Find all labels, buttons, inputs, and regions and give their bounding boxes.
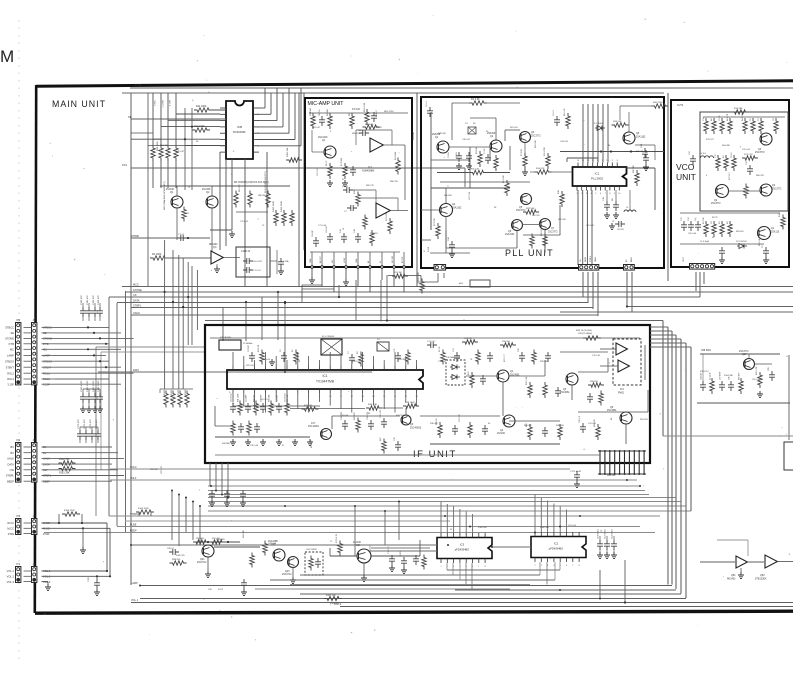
capacitor cluster right of Q24	[388, 546, 426, 574]
svg-text:C95 0.04: C95 0.04	[752, 379, 761, 381]
capacitor C38 0.033	[380, 409, 387, 428]
resistor R55b v	[263, 541, 267, 556]
wires IF bottom stubs to band	[210, 463, 228, 499]
svg-text:R50 680: R50 680	[196, 538, 205, 540]
svg-text:J4: J4	[33, 514, 37, 518]
label MIC-AMP UNIT	[308, 101, 345, 107]
label R81 4700	[384, 111, 394, 113]
svg-text:C172 0.001: C172 0.001	[570, 471, 582, 473]
svg-text:µPD4094BG: µPD4094BG	[549, 547, 564, 551]
wire IC2-IC3 link	[492, 546, 531, 548]
wire vertical drop 4 across bus	[187, 262, 189, 345]
transistor Q2 2SU106	[206, 196, 218, 208]
svg-text:LAMP: LAMP	[7, 354, 14, 358]
svg-text:2SC3771: 2SC3771	[772, 189, 782, 191]
label UNLK	[133, 311, 140, 315]
op-amp IC1a NJM4558M	[370, 138, 383, 152]
svg-text:UNLK: UNLK	[133, 311, 140, 315]
value annotation texture (labels)	[150, 127, 764, 557]
label Q23	[282, 570, 292, 576]
capacitor C25 if	[545, 352, 551, 362]
wire vertical bus D	[95, 347, 97, 516]
wire vertical drop 2 across bus	[178, 255, 180, 389]
wire bottom rail 2	[455, 589, 676, 591]
IC3 top pins	[441, 533, 485, 538]
svg-text:C71 0.04: C71 0.04	[318, 225, 327, 227]
capacitor C36 if2	[587, 393, 593, 403]
title letter M (cropped page title)	[0, 47, 14, 66]
capacitor C5 vco	[719, 247, 725, 263]
wires IC1TX top risers	[233, 352, 417, 366]
svg-text:R2 47: R2 47	[326, 160, 328, 166]
capacitor C13 0.0056	[340, 228, 347, 243]
wire bus band 4	[208, 494, 649, 496]
vco resistor row 1b	[742, 113, 778, 134]
svg-text:J1: J1	[33, 562, 37, 566]
label X1	[465, 123, 476, 125]
capacitor C185 0.002	[88, 575, 100, 595]
transistor Q4 2SC3771 vco	[760, 184, 772, 196]
label STBNF	[131, 235, 140, 238]
wire M.CC corner	[109, 528, 111, 576]
wire micamp right vertical	[416, 93, 418, 287]
capacitor C3 pll	[456, 152, 472, 170]
svg-text:C47 0.04: C47 0.04	[469, 191, 471, 200]
svg-text:2SC3772: 2SC3772	[739, 351, 749, 353]
label DATA	[133, 299, 140, 303]
wires IC1TX bottom stubs	[233, 394, 417, 413]
svg-text:STBCC: STBCC	[130, 513, 139, 516]
wire bottom rail VOL2	[340, 606, 793, 608]
svg-text:C67 0.01: C67 0.01	[317, 167, 319, 176]
svg-text:ROL3: ROL3	[7, 377, 14, 381]
svg-text:TX1044TMB: TX1044TMB	[316, 380, 334, 384]
wire bus-to-IF v2	[245, 301, 247, 341]
resistor R55 v	[526, 422, 532, 440]
capacitor C3 40P	[762, 245, 769, 264]
resistor R11 270 h	[462, 338, 478, 344]
resistor R5 v pll	[494, 155, 498, 171]
IC1TX top pins	[233, 366, 417, 371]
svg-text:J5: J5	[33, 318, 37, 322]
resistor R16 68K vco	[732, 108, 749, 114]
amp IC4b	[618, 360, 629, 372]
svg-text:R84 98K: R84 98K	[160, 145, 168, 147]
svg-text:R80 70K: R80 70K	[390, 181, 398, 183]
svg-text:R11 10K: R11 10K	[413, 131, 415, 140]
svg-text:2SC4061B: 2SC4061B	[410, 428, 422, 430]
IC1TX bottom pins	[233, 389, 417, 394]
svg-text:Q17: Q17	[742, 353, 747, 356]
svg-text:STBPL: STBPL	[133, 304, 142, 308]
capacitor C1 pll	[448, 152, 462, 170]
svg-text:9: 9	[612, 160, 613, 162]
svg-text:STBPL: STBPL	[6, 474, 15, 478]
page fold dashed line	[18, 20, 20, 660]
wire R14	[530, 171, 572, 173]
svg-text:6: 6	[566, 565, 567, 567]
resistor R22 100K below micamp	[418, 271, 424, 293]
transistor Q4 2SJ106 if	[503, 415, 515, 427]
wire bus band 8	[208, 510, 691, 512]
label Q4 if	[497, 429, 506, 435]
svg-text:C63 0.07: C63 0.07	[312, 127, 321, 129]
resistor R20 220K	[652, 102, 669, 108]
wire Q2 source	[211, 208, 213, 251]
svg-text:C38 0.1: C38 0.1	[167, 548, 175, 550]
junctions J5 wires	[87, 326, 107, 368]
svg-text:3: 3	[586, 193, 587, 195]
wire if inner v1	[331, 416, 333, 429]
wire bottom rail VOL1	[131, 602, 793, 604]
svg-text:R11 100K: R11 100K	[196, 105, 207, 108]
label TX1044TMB	[316, 380, 334, 384]
svg-text:C12A: C12A	[283, 260, 289, 263]
capacitor C7b 0.01	[243, 267, 261, 273]
svg-text:R7 270K: R7 270K	[434, 218, 436, 226]
label IF UNIT	[413, 449, 457, 460]
svg-text:R72 14K: R72 14K	[759, 238, 761, 246]
connector J2 (on border, 7-pin)	[32, 438, 37, 482]
svg-text:C55 0.01: C55 0.01	[742, 149, 751, 151]
svg-text:R32 94K: R32 94K	[287, 394, 289, 402]
resistor R53 v	[468, 422, 472, 438]
capacitor C39 b	[241, 579, 247, 595]
wire pll mesh 1	[431, 159, 470, 161]
svg-text:DATA: DATA	[133, 299, 140, 303]
wire bus DATA	[117, 302, 588, 304]
crystal X1 box	[468, 127, 476, 134]
label R68 800	[607, 475, 616, 477]
label STBPL	[133, 304, 142, 308]
svg-text:C8 22P: C8 22P	[312, 229, 314, 237]
wire rm link	[749, 354, 772, 364]
svg-text:MIC-AMP UNIT: MIC-AMP UNIT	[308, 101, 345, 107]
resistor R16 560 h	[500, 341, 516, 347]
svg-text:C1 18: C1 18	[448, 152, 450, 158]
capacitor C13 if2	[453, 347, 460, 362]
transistor Q24 2SJ106	[357, 549, 371, 563]
wire vertical bus B	[116, 303, 118, 526]
resistor R101 v	[250, 553, 254, 568]
resistor R22 56K	[523, 208, 539, 214]
wire bus band 0	[110, 468, 570, 470]
svg-text:1C7: 1C7	[311, 422, 316, 425]
svg-text:BEEP: BEEP	[130, 530, 137, 533]
label IC2	[554, 542, 559, 546]
svg-text:ROL2: ROL2	[7, 371, 14, 375]
label Q24	[353, 542, 362, 547]
svg-text:C7 0.1: C7 0.1	[178, 234, 185, 236]
ground Q51	[738, 568, 744, 578]
resistor R3 v pll	[476, 146, 482, 167]
wire if gnd rail	[215, 454, 600, 456]
wire box right	[270, 250, 277, 274]
svg-text:8: 8	[609, 193, 610, 195]
svg-text:R9 150K: R9 150K	[395, 151, 397, 160]
svg-text:IC3: IC3	[620, 388, 624, 391]
vertical label W211	[163, 181, 166, 210]
svg-text:E8.1: E8.1	[459, 283, 464, 285]
label IC7	[308, 422, 320, 428]
label P.TB	[135, 83, 141, 87]
resistor R13 v if	[476, 350, 480, 365]
wire r50 rail	[193, 541, 240, 543]
transistor Q3 2SC3772 vco	[760, 133, 772, 145]
resistor R82 vertical	[248, 191, 252, 208]
label Q22	[268, 540, 278, 546]
svg-text:R4 4.7K: R4 4.7K	[727, 113, 729, 121]
label ICB	[237, 125, 242, 129]
svg-text:R41 100K: R41 100K	[238, 393, 240, 402]
svg-text:VOL.2: VOL.2	[7, 575, 15, 579]
svg-text:ICB: ICB	[237, 125, 242, 129]
svg-text:MC: MC	[10, 348, 14, 352]
resistor R39 820 h	[588, 381, 604, 387]
wire bus band 7	[208, 505, 686, 507]
labels P2 pins	[6, 445, 15, 483]
wire bottom rail STBCC	[140, 585, 672, 587]
resistor R40 v	[599, 391, 603, 406]
svg-text:C193 0.022: C193 0.022	[98, 380, 100, 392]
svg-text:BV: BV	[11, 445, 15, 449]
svg-text:R81 661: R81 661	[736, 231, 744, 233]
capacitor C6 0.01 if	[280, 349, 287, 362]
label RL1	[306, 549, 318, 551]
label VOL.1 b	[131, 599, 139, 602]
capacitor D6 under IC1	[612, 190, 619, 218]
wire Q2 top	[470, 118, 496, 140]
resistor R6 4.7K v	[564, 108, 570, 129]
svg-text:R56 82K: R56 82K	[444, 195, 452, 197]
wire vco q2-q4	[728, 190, 760, 192]
resistor R44 100 h	[302, 405, 319, 411]
labels J5 pins	[43, 326, 52, 387]
wire bus band 10	[125, 520, 450, 522]
label Q1 2SC4116	[318, 137, 328, 142]
wire pll mesh 2	[469, 147, 471, 188]
wire Q4 base	[421, 188, 446, 210]
svg-text:VCO: VCO	[676, 162, 695, 172]
svg-text:DATA: DATA	[133, 369, 139, 372]
wire vco mid rail	[680, 212, 780, 214]
svg-text:2SC3772: 2SC3772	[531, 136, 541, 138]
micamp bottom pin stubs	[310, 252, 404, 267]
wire left long vertical	[130, 93, 132, 585]
svg-text:R2 2.2K: R2 2.2K	[258, 344, 260, 352]
connector VCO bottom (5-pin)	[690, 264, 715, 270]
svg-text:STBOO: STBOO	[5, 359, 14, 363]
svg-text:BEEP: BEEP	[631, 256, 633, 262]
capacitor C11 if	[394, 348, 401, 362]
svg-text:2SC14081: 2SC14081	[308, 426, 320, 428]
wire into IF left 2	[101, 352, 205, 470]
svg-text:C23 0.04: C23 0.04	[340, 415, 349, 417]
svg-text:CW: CW	[10, 468, 15, 472]
transistor Q9 2SC4061B	[401, 415, 411, 425]
svg-text:E162 470P: E162 470P	[138, 508, 149, 510]
svg-text:L2 10µH: L2 10µH	[710, 372, 712, 380]
capacitor C52 mid	[224, 490, 230, 506]
svg-text:R4 4.7K: R4 4.7K	[742, 113, 744, 121]
wire micamp left feed	[298, 93, 300, 287]
junction ICB	[184, 126, 193, 141]
wire bus STBPL	[131, 307, 593, 309]
wire Q3 out	[224, 257, 241, 259]
label PLL3005	[591, 177, 603, 181]
resistor R11 100K	[194, 105, 212, 112]
wire q3 region	[578, 358, 608, 372]
svg-text:R98 810: R98 810	[172, 559, 181, 561]
wire IC1 top risers	[583, 104, 608, 163]
wire bus band 9	[109, 515, 660, 517]
micamp bottom edge pin circles	[311, 266, 406, 269]
resistor R98 810	[170, 559, 187, 565]
wire if top right	[560, 351, 608, 353]
wire vertical bus C	[125, 291, 127, 532]
resistor R6 470 vertical	[265, 171, 270, 208]
svg-text:2SA1162: 2SA1162	[636, 136, 646, 139]
wire micamp long stub 2	[380, 280, 382, 322]
svg-text:2SC3772: 2SC3772	[711, 203, 721, 205]
capacitor C53 mid	[240, 490, 246, 506]
ground if top1	[269, 359, 275, 365]
IF grounds row	[230, 439, 313, 445]
resistor R182 39K	[59, 458, 76, 465]
capacitor C7 1P	[484, 148, 491, 164]
wire drop v399	[398, 502, 400, 541]
wire riser PLL2 p1	[626, 272, 628, 308]
wire right bundle v6	[690, 347, 692, 511]
wire W.CC corner	[106, 523, 108, 571]
svg-text:C190 0.022: C190 0.022	[81, 380, 83, 392]
wire right bundle v1	[667, 327, 669, 585]
label BU4021BF	[233, 130, 246, 134]
box PLL UNIT	[421, 97, 664, 268]
wire under resistors	[236, 211, 268, 213]
IC1 pin numbers	[577, 160, 621, 195]
label ELBE	[130, 524, 137, 527]
svg-text:R20 220K: R20 220K	[653, 102, 663, 104]
wire R11	[209, 109, 226, 111]
svg-text:C172 47P: C172 47P	[90, 419, 92, 429]
capacitor cluster right of IC2	[597, 529, 617, 558]
svg-text:5: 5	[595, 193, 596, 195]
svg-text:2SJ106: 2SJ106	[166, 189, 175, 191]
svg-text:T99.3: T99.3	[153, 100, 155, 106]
resistor R3 v if	[357, 351, 363, 367]
capacitor C1 if	[348, 351, 355, 364]
wire bus band 1	[110, 479, 637, 481]
resistor R49 label	[576, 330, 592, 335]
svg-text:C3 18: C3 18	[456, 152, 458, 158]
svg-text:R68 76K: R68 76K	[756, 175, 764, 177]
resistor R5 v	[349, 112, 354, 129]
label Q2 vco	[711, 199, 721, 205]
capacitor C7 0.0056	[344, 205, 357, 213]
wire Q1 drain	[176, 186, 178, 196]
wire STBNF	[131, 237, 210, 239]
wire W.CC line	[42, 522, 108, 524]
IC1 top pins	[578, 163, 617, 168]
svg-text:PLL3005: PLL3005	[591, 177, 603, 181]
svg-text:M.CC: M.CC	[7, 527, 14, 531]
wire bottom rail LAMP	[140, 598, 686, 600]
svg-text:R60 20K: R60 20K	[558, 219, 566, 221]
capacitor C10 vco	[746, 160, 753, 175]
wire q24 out	[371, 540, 420, 556]
connector J5 (on border, 11-pin)	[32, 318, 37, 385]
capacitor C38 0.1	[167, 548, 179, 555]
label STONE	[133, 288, 142, 292]
wire lamp circuit	[600, 560, 626, 604]
svg-text:C14 40P: C14 40P	[246, 394, 248, 402]
buffer Q51 RN1402	[736, 556, 747, 568]
IC2 top pins	[535, 532, 579, 537]
svg-text:CK: CK	[133, 293, 137, 297]
svg-text:2SJ106: 2SJ106	[497, 433, 506, 435]
svg-text:R182 39K: R182 39K	[59, 458, 70, 461]
svg-text:C11 0.04: C11 0.04	[262, 359, 271, 361]
svg-text:R162: R162	[178, 389, 180, 395]
svg-text:C188 10: C188 10	[241, 250, 251, 253]
wire riser VCO p3	[703, 272, 705, 284]
svg-text:R105 100K: R105 100K	[273, 201, 275, 212]
ground VOL3	[45, 584, 51, 590]
resistor R51 220	[209, 538, 225, 544]
resistor R23 v	[530, 234, 534, 249]
svg-text:R10 100K: R10 100K	[194, 125, 205, 128]
wire to Q51	[700, 561, 735, 563]
wire bus band 6	[208, 501, 681, 503]
svg-text:R36 32K: R36 32K	[430, 423, 438, 425]
wire bus band 3	[208, 490, 645, 492]
svg-text:L4 5.6: L4 5.6	[700, 153, 707, 155]
svg-text:R89 749: R89 749	[366, 185, 374, 187]
svg-text:R88 36K: R88 36K	[258, 195, 266, 197]
buffer Q3 RN1404	[211, 251, 223, 264]
resistor R56 v	[558, 424, 562, 440]
labels J2 pins	[43, 445, 52, 483]
junction STBNF	[187, 237, 189, 239]
svg-text:SE: SE	[128, 115, 132, 119]
svg-text:R22 100K: R22 100K	[418, 271, 420, 281]
svg-text:STBCC: STBCC	[5, 326, 14, 330]
wire drop v385	[384, 511, 386, 545]
svg-text:7: 7	[572, 565, 573, 567]
box C188/C6/C7	[236, 247, 270, 277]
resistor R1 100K v	[310, 107, 315, 129]
connector J1 (on border, 3-pin)	[32, 562, 37, 583]
resistor R4 2.2K pll	[437, 169, 510, 175]
capacitor cluster C170-C173	[77, 419, 101, 443]
svg-text:7: 7	[605, 193, 606, 195]
capacitor C42 if	[482, 425, 488, 435]
wire Q51-Q52	[748, 561, 765, 563]
label L1 3.3uH	[700, 241, 709, 243]
wire if mid rail	[290, 407, 403, 410]
connector PLL bottom left	[434, 265, 446, 271]
label L7 0.068	[424, 246, 430, 252]
wire if inner v4	[571, 385, 573, 400]
labels J4 pins	[43, 521, 50, 536]
capacitor C20 2.2 if	[579, 415, 586, 433]
resistor R58 v if	[594, 419, 600, 440]
svg-text:R2 22: R2 22	[712, 217, 718, 219]
resistor R46 3.3K h	[366, 404, 382, 410]
svg-text:C181 47P: C181 47P	[87, 295, 89, 305]
svg-text:C180 47P: C180 47P	[81, 295, 83, 305]
